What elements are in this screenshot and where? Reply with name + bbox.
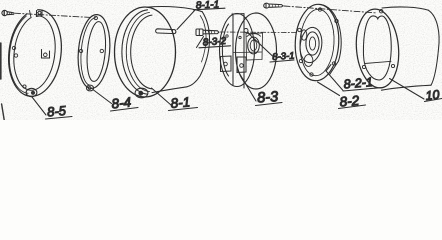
drum 8-1 body xyxy=(147,7,210,93)
axis line A1 (dash-dot to ring 8-4 hole) xyxy=(15,13,93,17)
housing 10 face xyxy=(353,7,402,89)
flange 8-2 rim holes xyxy=(298,8,338,76)
axis line A2 (dash-dot to flange and housing holes) xyxy=(284,6,377,13)
leader to 8-1 xyxy=(152,88,172,105)
label 8-4 xyxy=(111,95,139,112)
screw 8-3-2 xyxy=(196,29,219,36)
hub 8-3 bore (8-3-1) xyxy=(248,37,260,54)
ring 8-5 split gap xyxy=(26,7,37,18)
flange 8-2 small openings xyxy=(301,30,313,67)
leader to 10 xyxy=(390,79,425,100)
leader to 8-2 xyxy=(318,82,340,96)
flange 8-2 center opening xyxy=(298,26,324,64)
leader to 8-1-1 xyxy=(177,10,196,30)
leader to 8-5 xyxy=(32,97,46,115)
label 8-5 xyxy=(46,103,73,120)
label 8-1-1 xyxy=(194,0,226,11)
ring 8-5 outer xyxy=(4,7,66,100)
hub 8-3 center block xyxy=(234,33,263,60)
hub 8-3 back disc xyxy=(236,13,277,89)
label 8-3 xyxy=(256,89,283,106)
label 8-3-2 xyxy=(197,36,231,49)
leader to 8-3 xyxy=(238,71,256,101)
ring 8-5 right step tab with hole xyxy=(42,50,50,59)
screw S1 (far left) xyxy=(2,10,14,15)
ring 8-4 bottom lug xyxy=(86,85,93,91)
ring 8-5 top notch with hole xyxy=(37,10,43,17)
housing 10 inner opening with notch xyxy=(363,16,391,80)
drum 8-1 face slot (8-1-1) xyxy=(156,29,176,34)
label 10 xyxy=(425,88,442,103)
ring 8-5 left holes xyxy=(12,46,17,57)
flange 8-2 outer xyxy=(293,3,341,82)
hub 8-3 top hole xyxy=(244,29,248,33)
leader to 8-4 xyxy=(94,90,112,104)
leader to 8-3-1 xyxy=(248,33,274,57)
hub 8-3 front disc xyxy=(220,14,255,87)
hub 8-3 feet xyxy=(221,56,247,73)
label 8-2-1 xyxy=(343,75,383,91)
label 8-2 xyxy=(339,93,366,110)
hub 8-3 axis (dash-dot) xyxy=(220,31,296,34)
drum 8-1 face rim arcs xyxy=(115,7,176,97)
left page edge artifact xyxy=(0,43,2,79)
drum 8-1 bottom lug xyxy=(135,88,148,98)
scan speckle overlay xyxy=(0,0,1,1)
ring 8-4 outer xyxy=(75,13,113,89)
bottom-left corner mark xyxy=(2,104,5,120)
label 8-3-1 xyxy=(270,50,295,63)
ring 8-5 bottom lug xyxy=(23,85,37,97)
housing 10 body xyxy=(382,7,440,90)
housing 10 interior chord xyxy=(365,61,391,63)
screw S2 (top middle) xyxy=(264,3,283,8)
hub 8-3 face holes xyxy=(226,35,241,39)
label 8-1 xyxy=(169,94,198,111)
leader to 8-2-1 xyxy=(326,65,343,91)
housing 10 face holes xyxy=(362,10,394,69)
hub 8-3 front edges xyxy=(232,14,244,88)
ring 8-4 holes xyxy=(79,16,103,52)
flange 8-2 boss and bore xyxy=(306,32,319,55)
